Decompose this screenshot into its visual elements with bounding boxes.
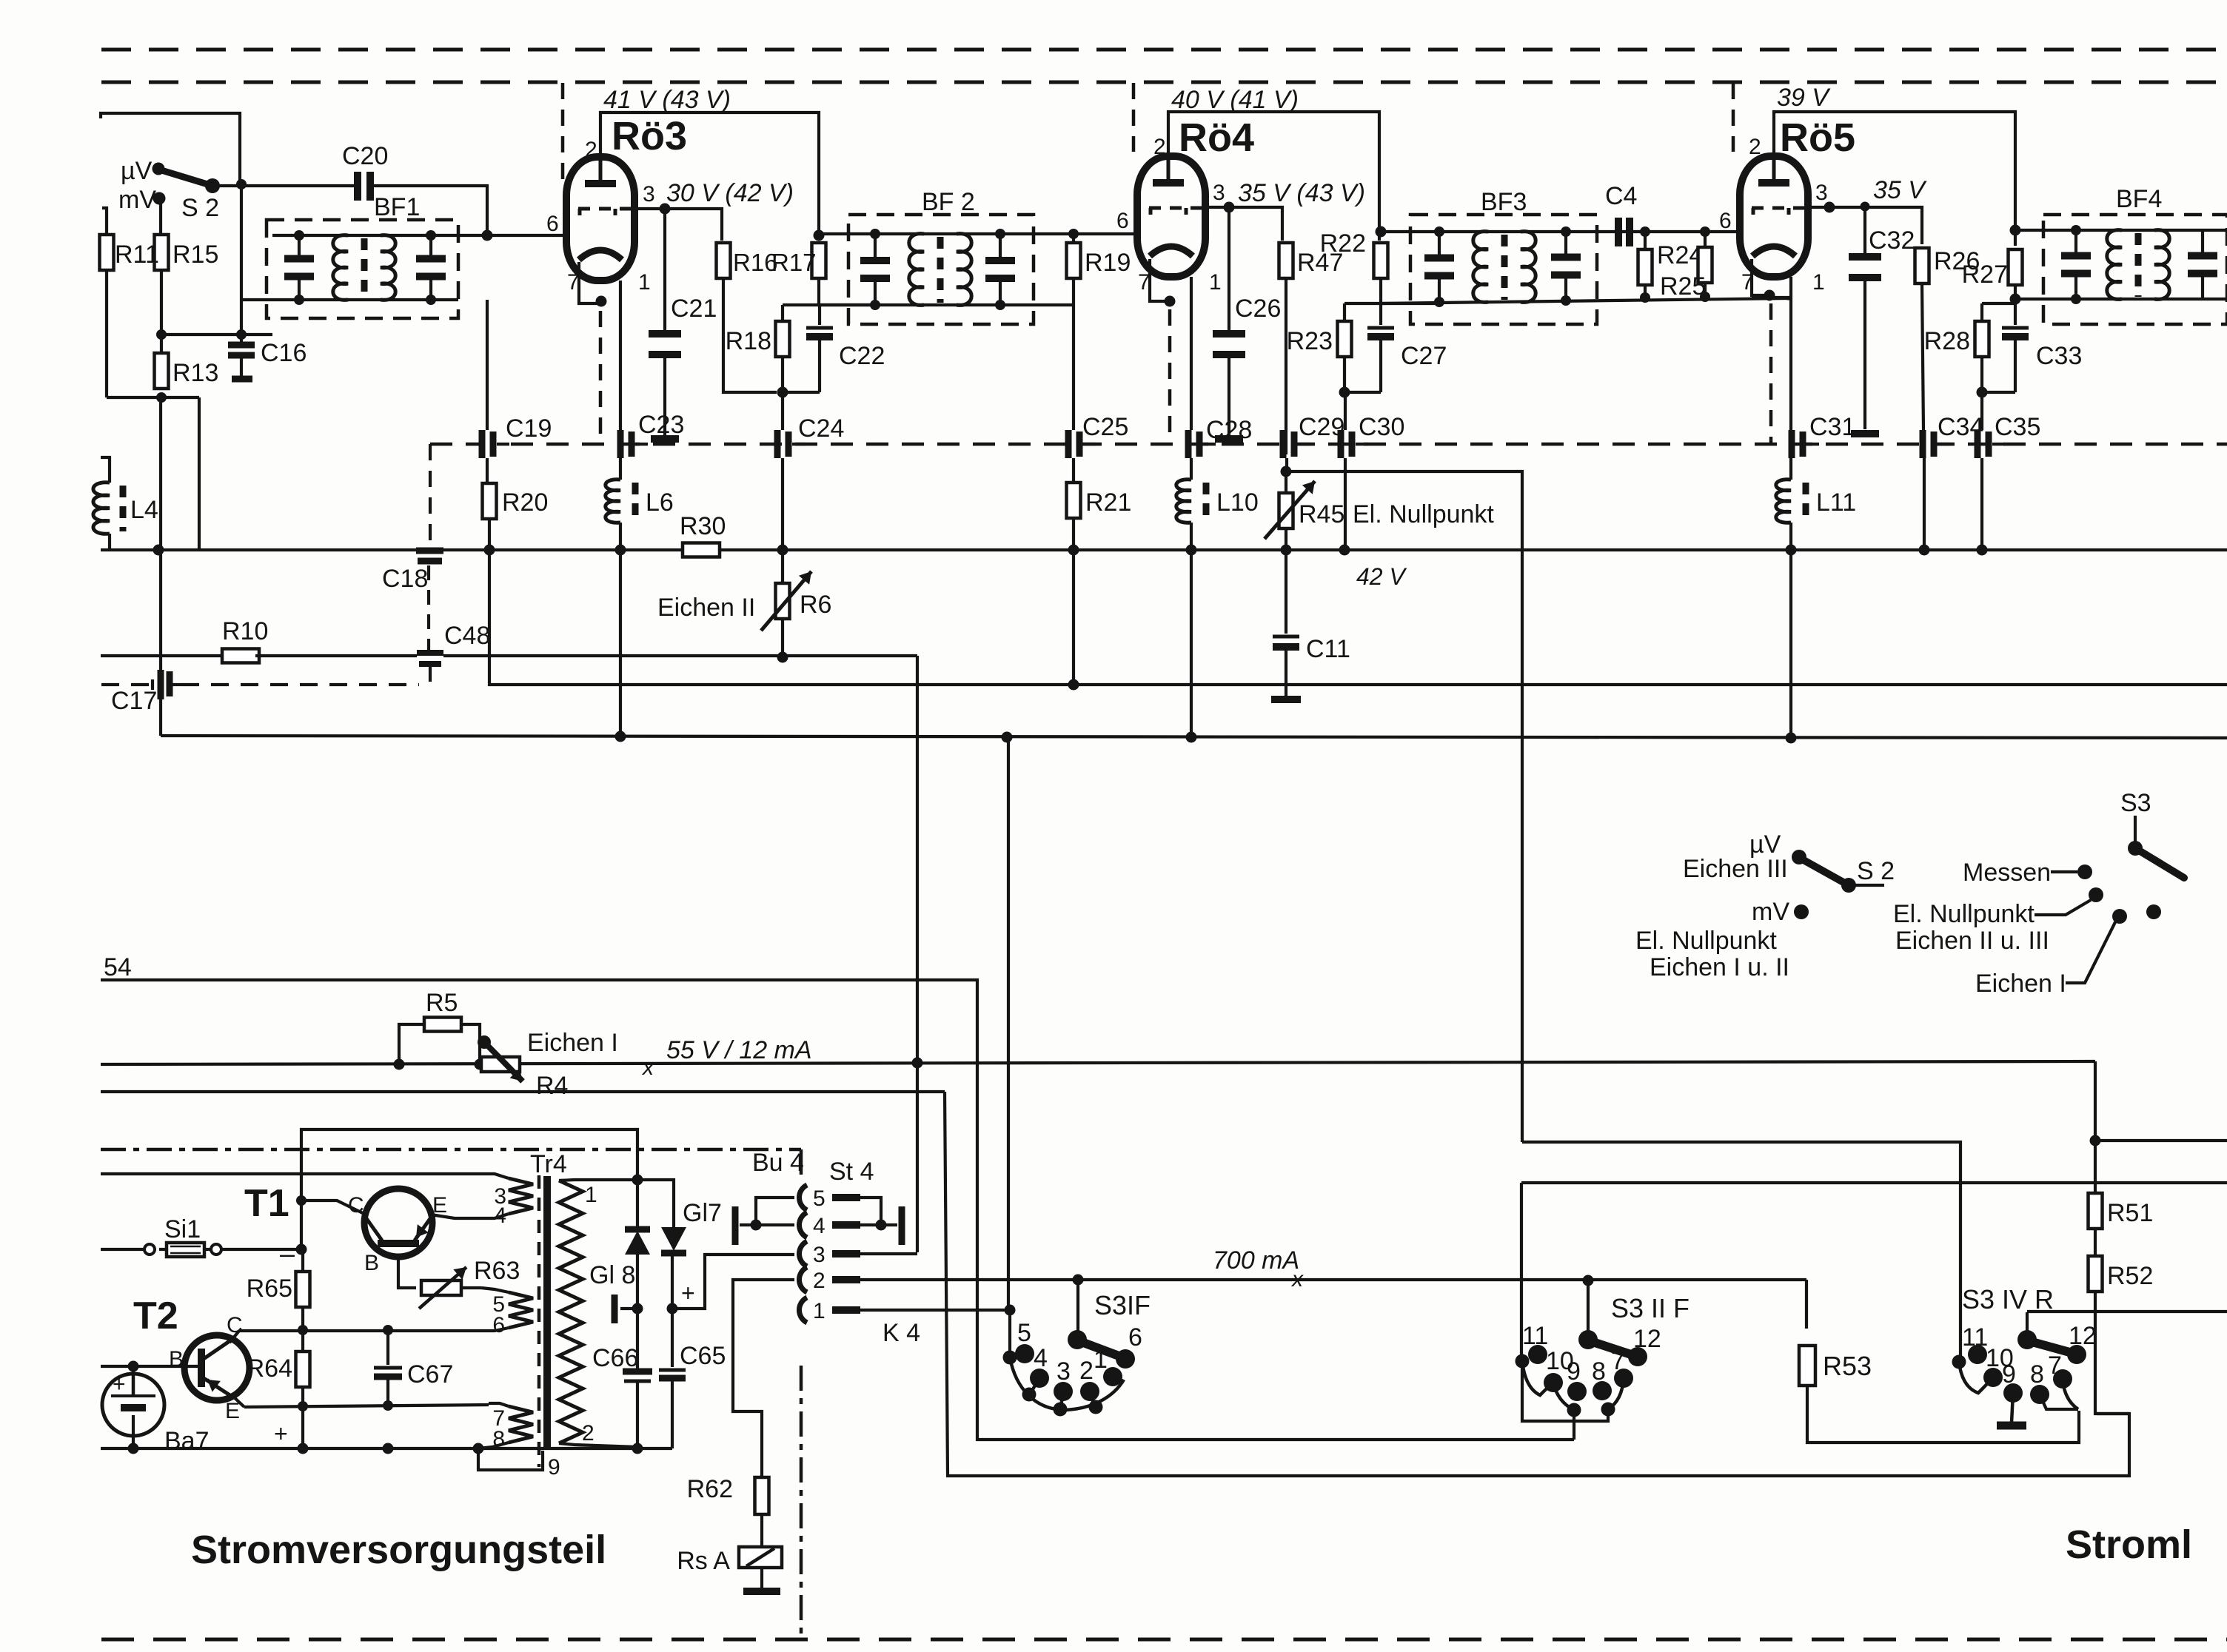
node pin2 riser: [1073, 1275, 1084, 1286]
label El Nullpunkt legend1: [1635, 927, 1777, 955]
capacitor BF4 right: [2188, 230, 2217, 299]
dashed screen bus left drop: [429, 444, 432, 546]
resistor R11: [100, 235, 159, 270]
svg-text:S 2: S 2: [1857, 857, 1895, 885]
relay RsA: [677, 1547, 782, 1575]
wire R64 leads: [301, 1330, 304, 1407]
node y994 L11col: [1786, 733, 1797, 744]
wire 55V corner down: [2094, 1061, 2097, 1141]
svg-text:R11: R11: [115, 241, 159, 269]
svg-text:B: B: [364, 1251, 379, 1275]
wire R6 leads: [781, 550, 784, 657]
wire C24 column: [781, 458, 784, 550]
wire R15 to R13: [160, 270, 163, 353]
node rail C67col: [383, 1443, 394, 1454]
capacitor C27: [1367, 303, 1447, 392]
wire BF1 bottom rail: [241, 298, 458, 301]
wire C23 to L6: [619, 458, 622, 480]
node C16: [236, 329, 247, 340]
inductor L10: [1176, 480, 1259, 523]
node pin3 Ro5: [1824, 202, 1835, 213]
border dashed top line 2: [101, 81, 2227, 84]
marker x 700mA: [1290, 1267, 1304, 1292]
switch S3IVR contact 12: [2067, 1322, 2097, 1364]
switch S3IVR pivot: [2017, 1330, 2037, 1349]
node bus 42V: [1339, 545, 1350, 556]
svg-text:C33: C33: [2036, 342, 2082, 370]
svg-text:6: 6: [1128, 1323, 1142, 1352]
label Ro3: [612, 114, 687, 158]
svg-text:12: 12: [2069, 1322, 2097, 1350]
label Messen: [1963, 859, 2051, 887]
svg-text:Gl 8: Gl 8: [589, 1261, 635, 1289]
core Tr4 bar: [543, 1176, 551, 1448]
wire corner to bus: [198, 397, 201, 550]
capacitor BF2 left: [860, 234, 890, 305]
svg-text:C17: C17: [111, 687, 157, 715]
svg-text:3: 3: [1815, 181, 1828, 205]
svg-text:Eichen I: Eichen I: [1975, 970, 2066, 998]
label pin6 Ro5: [1719, 209, 1732, 233]
capacitor C25: [1068, 413, 1128, 458]
wire St4 pin2 700mA: [860, 1278, 1806, 1281]
wire Si1 to node: [221, 1248, 301, 1251]
wire S2 to C20: [212, 184, 358, 187]
resistor R19: [1067, 243, 1131, 278]
wire sec tap1: [559, 1180, 637, 1181]
node Gl8 out: [632, 1303, 643, 1314]
wire sec tap2: [559, 1443, 637, 1447]
svg-text:Bu 4: Bu 4: [752, 1149, 804, 1177]
node bus R20: [484, 545, 495, 556]
inductor BF2 left coil: [909, 234, 924, 306]
node BF4 cap bottom: [2071, 294, 2081, 304]
node BF1 cap1 bottom: [294, 295, 304, 305]
wire R10 line: [101, 654, 226, 657]
inductor L11: [1776, 480, 1856, 523]
capacitor C23: [620, 411, 684, 458]
wire R11 top stub: [102, 208, 107, 235]
svg-text:2: 2: [582, 1421, 595, 1445]
node BF3 cap2 bottom: [1561, 295, 1571, 306]
wire anode Ro3 41V: [600, 113, 819, 241]
band filter BF4 box: [2043, 215, 2227, 324]
label S3IIF: [1611, 1293, 1689, 1323]
wire L10 to bus: [1190, 523, 1193, 550]
svg-text:L11: L11: [1816, 488, 1856, 517]
wire node to C35: [1982, 392, 2015, 430]
node rect in: [632, 1175, 643, 1186]
switch S3IIF contact 8: [1592, 1357, 1612, 1400]
capacitor C11: [1271, 550, 1350, 699]
switch S3IF contact 1: [1094, 1346, 1122, 1386]
svg-text:L4: L4: [130, 496, 158, 524]
wire S3IVR 8 down: [2040, 1394, 2078, 1409]
svg-text:C11: C11: [1306, 635, 1350, 663]
node bus L10: [1186, 545, 1197, 556]
svg-text:42 V: 42 V: [1356, 563, 1407, 590]
label 54: [104, 953, 132, 981]
wire Eichen I connector: [2066, 921, 2116, 983]
svg-text:2: 2: [813, 1269, 826, 1293]
svg-text:R15: R15: [173, 241, 218, 269]
svg-text:+: +: [113, 1372, 126, 1397]
inductor BF1 left coil: [333, 235, 348, 300]
switch S3IVR contact 8: [2030, 1360, 2049, 1404]
node T1 C: [296, 1195, 307, 1206]
wire R10 to C48: [255, 654, 417, 657]
wire rail to BF2: [819, 303, 875, 306]
wire R23 leads: [1343, 303, 1346, 392]
wire 55V line: [101, 1061, 2095, 1064]
node y994 C23col: [615, 731, 626, 742]
wire cathode Ro5: [1752, 259, 1769, 295]
capacitor C22: [806, 305, 885, 392]
capacitor C28: [1188, 416, 1252, 458]
svg-text:BF4: BF4: [2116, 185, 2162, 213]
node R6 bottom: [777, 652, 788, 663]
label 1: [585, 1183, 597, 1207]
node pin3 Ro3: [660, 204, 671, 215]
wire cathode Ro3: [579, 262, 601, 303]
node R18 C22: [777, 387, 788, 398]
wire riser x1280: [945, 1092, 2129, 1476]
label BF3: [1481, 188, 1527, 216]
wire C28 to L10: [1190, 458, 1193, 480]
capacitor C31: [1792, 413, 1855, 458]
wire Gl7 to node: [671, 1253, 674, 1309]
transistor T1: [348, 1189, 447, 1275]
label 35V: [1873, 176, 1927, 204]
svg-text:R5: R5: [426, 989, 458, 1017]
wire C30 column: [1344, 458, 1347, 550]
svg-text:6: 6: [1116, 209, 1129, 233]
label pin1 Ro3: [638, 270, 651, 295]
wire R24 R25 leads: [1645, 232, 1705, 298]
resistor R23: [1287, 321, 1352, 357]
diode Gl7: [661, 1199, 722, 1253]
svg-text:3: 3: [1056, 1357, 1071, 1386]
wire left column down: [159, 397, 162, 736]
switch S3IF contact 2: [1079, 1357, 1099, 1401]
wire C23 column lower: [619, 550, 622, 736]
svg-text:R18: R18: [726, 327, 771, 355]
wire tap6: [481, 1328, 509, 1331]
core BF1: [361, 238, 368, 298]
node R5 right: [475, 1059, 486, 1070]
label S3IVR: [1962, 1284, 2054, 1314]
label pin6 Ro4: [1116, 209, 1129, 233]
node BF2 cap1 top: [870, 229, 880, 239]
wire C48 to corner: [443, 654, 917, 657]
core BF3: [1501, 235, 1508, 300]
wire St4 pin1 K4: [860, 1309, 1010, 1312]
capacitor BF3 left: [1424, 232, 1454, 302]
label pin3 Ro4: [1213, 181, 1225, 205]
svg-text:12: 12: [1633, 1325, 1661, 1353]
wire BF2 top rail: [819, 232, 1137, 235]
label K4: [883, 1319, 920, 1347]
wire R51 R52: [2094, 1229, 2097, 1256]
node R28 C33: [1977, 387, 1988, 398]
svg-text:x: x: [1290, 1267, 1304, 1292]
inductor BF1 right coil: [381, 235, 395, 300]
svg-text:x: x: [641, 1055, 654, 1080]
wire S3 stem: [2134, 816, 2137, 845]
switch S3IIF contact 10: [1544, 1347, 1574, 1392]
inductor BF4 left coil: [2107, 230, 2122, 300]
switch S3IIF contact 7: [1611, 1347, 1633, 1388]
capacitor C29: [1283, 413, 1344, 458]
band filter BF3 box: [1410, 215, 1597, 324]
svg-text:R6: R6: [800, 591, 831, 619]
core BF2: [937, 237, 944, 303]
svg-text:5: 5: [813, 1186, 826, 1211]
switch S3IF pivot: [1068, 1330, 1087, 1349]
svg-text:R63: R63: [474, 1257, 520, 1285]
svg-text:R27: R27: [1962, 261, 2008, 289]
label BF2: [922, 188, 975, 216]
svg-text:St 4: St 4: [829, 1158, 874, 1186]
svg-text:C32: C32: [1869, 226, 1915, 255]
svg-text:39 V: 39 V: [1777, 84, 1831, 112]
label St4: [829, 1158, 874, 1186]
switch S3IF contact 5: [1015, 1319, 1034, 1363]
svg-text:41 V (43 V): 41 V (43 V): [603, 86, 731, 114]
label 42V: [1356, 563, 1407, 590]
label 700mA: [1213, 1246, 1299, 1275]
label 9: [548, 1455, 560, 1480]
wire grid pin3 Ro5: [1808, 207, 1922, 244]
wire right corner 1543: [1522, 1142, 1960, 1359]
svg-text:+: +: [681, 1280, 695, 1306]
svg-text:11: 11: [1522, 1322, 1548, 1350]
switch S3IVR contact 9: [2002, 1360, 2023, 1403]
wire BF4 bottom rail: [2015, 298, 2227, 300]
node C rail C67: [383, 1325, 393, 1335]
label pin1 Ro4: [1209, 270, 1222, 295]
wire BF2 bottom rail: [819, 303, 1074, 306]
wire R26 bottom: [1922, 283, 1923, 430]
label pin2 Ro5: [1749, 135, 1761, 159]
switch S3IIF lever: [1590, 1341, 1633, 1355]
wire bottom rail: [101, 1447, 672, 1450]
svg-text:C16: C16: [261, 339, 307, 367]
border dashed top line 1: [101, 48, 2227, 52]
svg-text:L6: L6: [646, 488, 674, 517]
wire C rail: [239, 1329, 481, 1332]
wire R51 column: [2094, 1141, 2097, 1193]
wire anode Ro5 39V: [1774, 112, 2015, 246]
power-supply boundary dash-dot vertical: [800, 1149, 803, 1639]
wire S3IIF box: [1522, 1361, 1608, 1421]
label pin3 Ro3: [643, 182, 655, 206]
core Tr4 dashed: [538, 1175, 541, 1467]
label uV legend: [1749, 830, 1781, 859]
winding Tr4 7-8: [492, 1406, 533, 1451]
dashed screen Ro3: [599, 311, 603, 443]
label plus rect: [681, 1280, 695, 1306]
wire C31 to L11: [1789, 458, 1792, 480]
resistor R30 in bus: [680, 512, 726, 557]
svg-text:Si1: Si1: [164, 1215, 201, 1243]
switch S3IVR contact 10: [1983, 1344, 2014, 1387]
svg-text:C18: C18: [382, 565, 428, 593]
svg-text:BF3: BF3: [1481, 188, 1527, 216]
node C66 bottom: [632, 1443, 643, 1454]
node tap8 rail: [473, 1443, 484, 1454]
resistor R51: [2089, 1193, 2154, 1229]
node bus C23: [615, 545, 626, 556]
label T1: [244, 1182, 289, 1225]
switch S3IIF contact 12: [1628, 1325, 1661, 1366]
capacitor BF4 left: [2061, 230, 2091, 299]
wire S3IVR top: [2026, 1312, 2029, 1337]
ground S3IVR 9: [1997, 1393, 2026, 1426]
resistor R53: [1799, 1346, 1872, 1386]
resistor R17: [771, 243, 826, 278]
svg-text:S3IF: S3IF: [1094, 1290, 1151, 1320]
dashed C17 left: [101, 679, 153, 690]
switch S3 lever: [2135, 848, 2184, 878]
wire BF3 bottom rail: [1381, 298, 1791, 303]
capacitor C17 on column: [111, 670, 181, 715]
resistor R5: [424, 989, 461, 1032]
svg-text:1: 1: [813, 1299, 826, 1323]
svg-text:R17: R17: [771, 249, 817, 276]
svg-text:Stroml: Stroml: [2066, 1522, 2192, 1567]
switch S2 lever: [161, 170, 212, 186]
switch S2 legend contact mV: [1794, 904, 1809, 919]
switch S2 contact: [205, 178, 220, 193]
node bus R45: [1281, 545, 1292, 556]
connector Bu4 pin2: [799, 1267, 860, 1293]
svg-text:35 V: 35 V: [1873, 176, 1927, 204]
svg-text:R24: R24: [1657, 241, 1703, 269]
label 30V: [666, 179, 794, 207]
node BF2 cap1 bottom: [870, 300, 880, 310]
switch S3 contact right: [2146, 904, 2161, 919]
wire R62 feed: [733, 1280, 794, 1477]
wire GL8 column top: [636, 1180, 639, 1227]
wire T2 emitter: [231, 1394, 244, 1407]
wire pin1 Ro3 down: [619, 281, 622, 430]
switch S3IVR contact 11: [1962, 1323, 1988, 1364]
label pin7 Ro3: [567, 270, 580, 295]
wire T1 base: [398, 1257, 416, 1288]
svg-text:µV: µV: [121, 157, 153, 185]
connector Bu4 pin3: [799, 1241, 860, 1267]
svg-text:R10: R10: [222, 617, 268, 645]
svg-text:R13: R13: [173, 359, 218, 387]
label El Nullpunkt legend2: [1893, 900, 2035, 928]
node R25 bottom: [1700, 292, 1710, 302]
label 39V: [1777, 84, 1831, 112]
winding Tr4 3-4: [494, 1178, 533, 1228]
svg-text:40 V (41 V): 40 V (41 V): [1171, 86, 1299, 114]
svg-text:R28: R28: [1924, 327, 1970, 355]
capacitor C65: [659, 1309, 726, 1448]
switch S3 contact middle: [2089, 887, 2103, 902]
node R5 left: [394, 1059, 405, 1070]
svg-text:R53: R53: [1823, 1351, 1872, 1381]
switch S3IVR lever: [2029, 1341, 2072, 1353]
terminal left: [614, 1295, 637, 1323]
switch S3IIF contact left: [1516, 1354, 1530, 1369]
capacitor C16: [228, 335, 307, 379]
node bus L11: [1786, 545, 1797, 556]
svg-text:9: 9: [548, 1455, 560, 1480]
wire R28 leads: [1980, 303, 1983, 392]
label Ro4: [1179, 115, 1254, 160]
label mV legend: [1752, 898, 1789, 926]
svg-text:4: 4: [813, 1214, 826, 1238]
resistor R25: [1660, 247, 1712, 300]
svg-text:S 2: S 2: [181, 194, 219, 222]
svg-text:BF 2: BF 2: [922, 188, 975, 216]
svg-text:C65: C65: [680, 1342, 726, 1370]
label plus bottom: [274, 1420, 288, 1447]
svg-text:R23: R23: [1287, 327, 1333, 355]
wire R17 bottom rail: [783, 278, 819, 305]
switch S2 input contact uV: [153, 163, 165, 175]
node rail Ba7: [128, 1443, 139, 1454]
switch S3IF contact 3: [1054, 1357, 1073, 1401]
svg-text:El. Nullpunkt: El. Nullpunkt: [1893, 900, 2035, 928]
wire L4 bottom: [108, 534, 111, 550]
dashed C18 to C48: [427, 565, 430, 650]
node bus R21: [1068, 545, 1079, 556]
node R45 top: [1281, 466, 1292, 477]
node cathode Ro3: [596, 296, 607, 307]
label Eichen I legend: [1975, 970, 2066, 998]
wire R20 to bus: [488, 519, 491, 550]
label Eichen I u II: [1650, 953, 1789, 981]
svg-text:T2: T2: [133, 1295, 178, 1337]
power-supply boundary dash-dot horizontal: [101, 1148, 801, 1152]
wire tap8: [478, 1443, 509, 1448]
node R24 bottom: [1640, 292, 1650, 303]
wire C34 column: [1923, 458, 1926, 550]
svg-text:8: 8: [1592, 1357, 1606, 1386]
capacitor C30: [1341, 413, 1404, 458]
label pin7 Ro4: [1138, 270, 1151, 295]
resistor R16: [717, 243, 778, 278]
label pin1 Ro5: [1812, 270, 1825, 295]
svg-text:R45: R45: [1299, 500, 1344, 528]
resistor R52: [2089, 1256, 2154, 1292]
svg-text:1: 1: [1209, 270, 1222, 295]
svg-text:6: 6: [1719, 209, 1732, 233]
node E rail C67: [383, 1400, 393, 1411]
svg-text:R30: R30: [680, 512, 726, 540]
connector Bu4 pin5: [799, 1185, 860, 1211]
svg-text:El. Nullpunkt: El. Nullpunkt: [1353, 500, 1494, 528]
switch S3IF contact left: [1003, 1310, 1017, 1365]
inductor BF3 right coil: [1521, 232, 1536, 303]
inductor BF2 right coil: [957, 234, 971, 306]
wire R21 to bus: [1072, 518, 1075, 550]
wire R18 leads: [781, 305, 784, 392]
resistor R27: [1962, 249, 2023, 289]
svg-text:K 4: K 4: [883, 1319, 920, 1347]
wire C19 column: [486, 300, 489, 484]
winding Tr4 5-6: [492, 1292, 533, 1337]
capacitor C32: [1849, 202, 1915, 434]
resistor R26: [1915, 247, 1980, 283]
node bus C35: [1977, 545, 1988, 556]
node y994 L10col: [1186, 732, 1197, 743]
